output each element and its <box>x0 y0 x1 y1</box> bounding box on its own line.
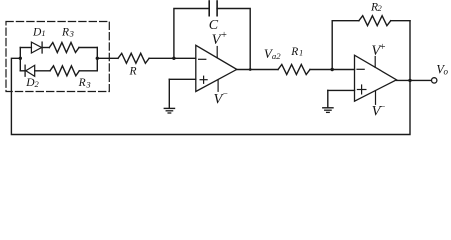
svg-text:−: − <box>380 102 385 112</box>
svg-text:3: 3 <box>85 79 90 89</box>
svg-text:−: − <box>223 88 228 98</box>
svg-text:R: R <box>78 77 86 89</box>
svg-text:R: R <box>61 27 69 39</box>
svg-text:1: 1 <box>299 48 303 58</box>
svg-text:a2: a2 <box>272 51 281 61</box>
svg-text:1: 1 <box>41 28 45 38</box>
svg-text:R: R <box>290 46 298 58</box>
svg-text:+: + <box>380 42 386 53</box>
svg-text:R: R <box>129 66 137 78</box>
svg-text:3: 3 <box>69 29 74 39</box>
svg-text:o: o <box>444 67 449 77</box>
svg-text:2: 2 <box>378 3 383 13</box>
svg-text:C: C <box>209 18 219 33</box>
svg-text:2: 2 <box>35 79 40 89</box>
svg-text:+: + <box>221 30 227 41</box>
